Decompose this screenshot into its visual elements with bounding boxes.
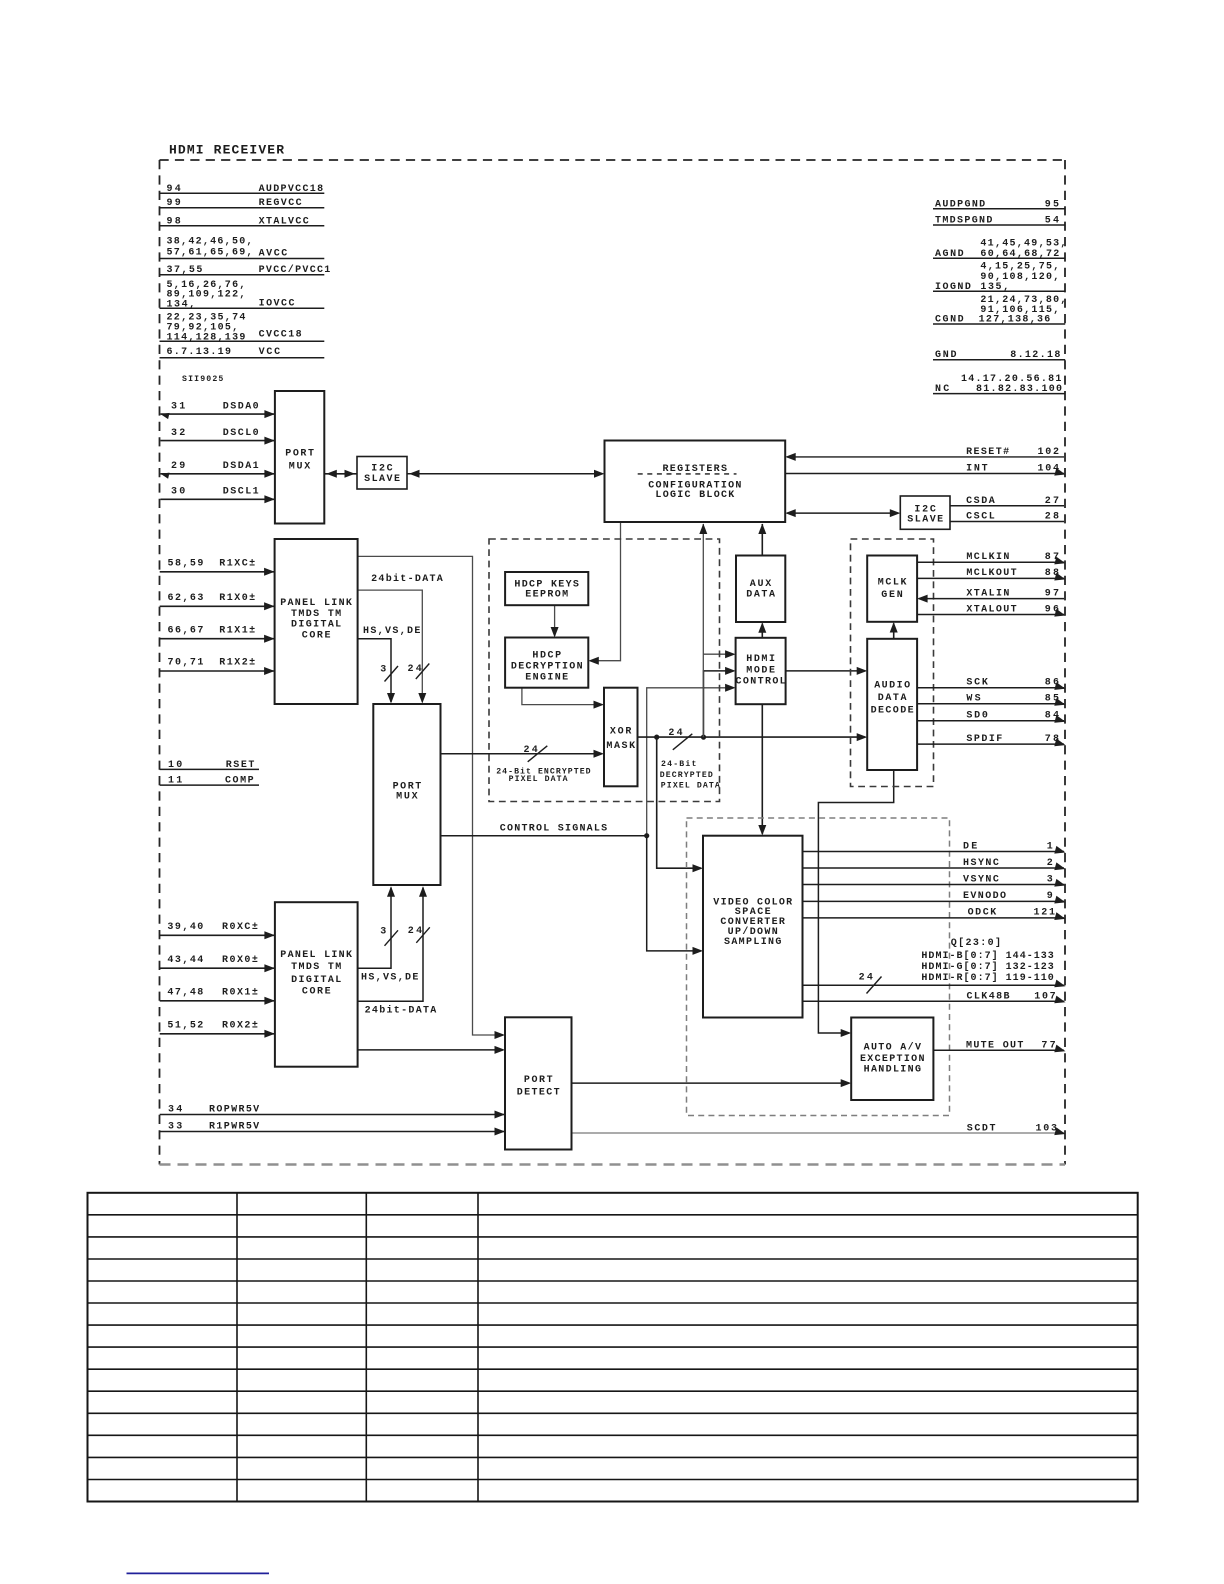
svg-text:CGND: CGND bbox=[935, 315, 964, 326]
svg-text:57,61,65,69,: 57,61,65,69, bbox=[167, 248, 253, 259]
svg-text:24bit-DATA: 24bit-DATA bbox=[371, 573, 443, 585]
svg-text:CLK48B: CLK48B bbox=[967, 991, 1010, 1002]
svg-text:EXCEPTION: EXCEPTION bbox=[860, 1054, 925, 1065]
svg-text:HDMI-G[0:7] 132-123: HDMI-G[0:7] 132-123 bbox=[921, 961, 1053, 973]
svg-text:CSDA: CSDA bbox=[966, 496, 995, 507]
svg-text:HDMI RECEIVER: HDMI RECEIVER bbox=[169, 143, 284, 158]
svg-text:37,55: 37,55 bbox=[167, 265, 203, 276]
svg-text:47,48: 47,48 bbox=[167, 987, 203, 998]
svg-text:24-Bit: 24-Bit bbox=[661, 759, 696, 769]
svg-text:SLAVE: SLAVE bbox=[364, 474, 400, 485]
svg-text:CONVERTER: CONVERTER bbox=[720, 917, 785, 928]
svg-text:GND: GND bbox=[935, 350, 957, 361]
svg-text:3: 3 bbox=[380, 665, 386, 676]
svg-text:135,: 135, bbox=[980, 282, 1009, 293]
svg-text:CORE: CORE bbox=[302, 987, 331, 998]
svg-text:3: 3 bbox=[380, 927, 386, 938]
svg-text:DIGITAL: DIGITAL bbox=[291, 975, 341, 986]
svg-text:107: 107 bbox=[1034, 991, 1056, 1002]
svg-text:AGND: AGND bbox=[935, 249, 964, 260]
svg-text:RESET#: RESET# bbox=[966, 447, 1009, 458]
svg-text:CONTROL SIGNALS: CONTROL SIGNALS bbox=[500, 824, 608, 835]
svg-text:HDMI-R[0:7] 119-110: HDMI-R[0:7] 119-110 bbox=[921, 972, 1053, 984]
svg-text:R0XC±: R0XC± bbox=[222, 922, 258, 933]
svg-text:AUDPGND: AUDPGND bbox=[935, 199, 985, 210]
svg-text:SII9025: SII9025 bbox=[182, 375, 223, 384]
svg-text:MCLK: MCLK bbox=[878, 578, 907, 589]
svg-text:AVCC: AVCC bbox=[259, 248, 288, 259]
svg-text:XTALIN: XTALIN bbox=[966, 588, 1009, 599]
svg-text:2: 2 bbox=[1047, 858, 1053, 869]
svg-text:AUTO A/V: AUTO A/V bbox=[864, 1042, 921, 1054]
svg-text:R0X0±: R0X0± bbox=[222, 955, 258, 966]
svg-text:SPDIF: SPDIF bbox=[966, 734, 1002, 745]
svg-text:HS,VS,DE: HS,VS,DE bbox=[361, 972, 418, 983]
svg-text:DECODE: DECODE bbox=[871, 706, 914, 717]
svg-text:PANEL LINK: PANEL LINK bbox=[280, 598, 352, 609]
svg-text:CSCL: CSCL bbox=[966, 512, 995, 523]
svg-text:INT: INT bbox=[966, 464, 988, 475]
svg-text:ROPWR5V: ROPWR5V bbox=[209, 1105, 259, 1116]
svg-text:XTALOUT: XTALOUT bbox=[966, 604, 1016, 615]
svg-text:134,: 134, bbox=[167, 299, 196, 310]
svg-text:HDCP: HDCP bbox=[532, 651, 561, 662]
svg-text:R1X2±: R1X2± bbox=[219, 658, 255, 669]
svg-text:RSET: RSET bbox=[226, 760, 255, 771]
svg-text:R1X0±: R1X0± bbox=[219, 593, 255, 604]
svg-text:IOVCC: IOVCC bbox=[259, 298, 295, 309]
svg-text:HDMI-B[0:7] 144-133: HDMI-B[0:7] 144-133 bbox=[921, 950, 1053, 962]
svg-text:EEPROM: EEPROM bbox=[525, 589, 568, 600]
svg-text:MCLKIN: MCLKIN bbox=[966, 552, 1009, 563]
svg-text:R0X2±: R0X2± bbox=[222, 1020, 258, 1031]
svg-text:127,138,36: 127,138,36 bbox=[979, 315, 1051, 326]
svg-text:R1PWR5V: R1PWR5V bbox=[209, 1122, 259, 1133]
svg-text:39,40: 39,40 bbox=[167, 922, 203, 933]
svg-text:R1XC±: R1XC± bbox=[219, 558, 255, 569]
svg-text:CVCC18: CVCC18 bbox=[259, 330, 302, 341]
svg-text:43,44: 43,44 bbox=[167, 955, 203, 966]
svg-text:LOGIC BLOCK: LOGIC BLOCK bbox=[655, 490, 734, 501]
svg-text:103: 103 bbox=[1036, 1123, 1058, 1134]
svg-text:3: 3 bbox=[1047, 874, 1053, 885]
svg-text:MASK: MASK bbox=[606, 741, 635, 752]
svg-text:AUDIO: AUDIO bbox=[874, 681, 910, 692]
svg-text:CONTROL: CONTROL bbox=[736, 677, 786, 688]
svg-text:HANDLING: HANDLING bbox=[864, 1065, 921, 1076]
svg-text:R0X1±: R0X1± bbox=[222, 987, 258, 998]
svg-text:HSYNC: HSYNC bbox=[963, 858, 999, 869]
svg-text:GEN: GEN bbox=[881, 590, 903, 601]
svg-text:114,128,139: 114,128,139 bbox=[167, 332, 246, 343]
svg-text:VCC: VCC bbox=[259, 347, 281, 358]
svg-text:SCK: SCK bbox=[966, 678, 988, 689]
svg-text:DECRYPTED: DECRYPTED bbox=[660, 771, 713, 780]
svg-text:Q[23:0]: Q[23:0] bbox=[951, 937, 1001, 949]
svg-text:PORT: PORT bbox=[524, 1075, 553, 1086]
svg-text:IOGND: IOGND bbox=[935, 282, 971, 293]
svg-text:PVCC/PVCC1: PVCC/PVCC1 bbox=[259, 264, 331, 276]
svg-text:MCLKOUT: MCLKOUT bbox=[966, 568, 1016, 579]
svg-text:PIXEL DATA: PIXEL DATA bbox=[509, 775, 568, 784]
svg-text:DECRYPTION: DECRYPTION bbox=[511, 662, 583, 673]
svg-text:81.82.83.100: 81.82.83.100 bbox=[976, 384, 1062, 395]
svg-text:AUDPVCC18: AUDPVCC18 bbox=[259, 184, 324, 195]
svg-text:MODE: MODE bbox=[746, 665, 775, 676]
svg-text:DATA: DATA bbox=[746, 589, 775, 600]
svg-text:DSDA1: DSDA1 bbox=[223, 461, 259, 472]
svg-text:EVNODO: EVNODO bbox=[963, 891, 1006, 902]
svg-text:R1X1±: R1X1± bbox=[219, 625, 255, 636]
svg-text:62,63: 62,63 bbox=[168, 593, 204, 604]
svg-text:DIGITAL: DIGITAL bbox=[291, 620, 341, 631]
svg-text:70,71: 70,71 bbox=[168, 658, 204, 669]
svg-text:60,64,68,72: 60,64,68,72 bbox=[980, 249, 1059, 260]
svg-text:9: 9 bbox=[1047, 891, 1053, 902]
svg-text:COMP: COMP bbox=[225, 776, 254, 787]
svg-text:24bit-DATA: 24bit-DATA bbox=[365, 1004, 437, 1016]
svg-text:8.12.18: 8.12.18 bbox=[1010, 350, 1060, 361]
svg-text:MUTE OUT: MUTE OUT bbox=[966, 1040, 1023, 1051]
svg-text:MUX: MUX bbox=[289, 461, 311, 472]
svg-text:HDMI: HDMI bbox=[746, 654, 775, 665]
svg-text:HS,VS,DE: HS,VS,DE bbox=[363, 626, 420, 637]
svg-text:104: 104 bbox=[1038, 464, 1060, 475]
svg-text:VSYNC: VSYNC bbox=[963, 874, 999, 885]
svg-text:XOR: XOR bbox=[610, 726, 632, 737]
svg-text:REGVCC: REGVCC bbox=[259, 198, 302, 209]
svg-text:1: 1 bbox=[1047, 841, 1053, 852]
svg-text:6.7.13.19: 6.7.13.19 bbox=[167, 347, 232, 358]
svg-text:TMDSPGND: TMDSPGND bbox=[935, 216, 992, 227]
svg-text:PIXEL DATA: PIXEL DATA bbox=[661, 782, 720, 791]
svg-text:SCDT: SCDT bbox=[967, 1123, 996, 1134]
svg-text:DATA: DATA bbox=[878, 693, 907, 704]
svg-text:CORE: CORE bbox=[302, 630, 331, 641]
svg-text:ENGINE: ENGINE bbox=[525, 672, 568, 683]
svg-text:SAMPLING: SAMPLING bbox=[724, 937, 781, 948]
svg-text:38,42,46,50,: 38,42,46,50, bbox=[167, 236, 253, 247]
svg-text:DSDA0: DSDA0 bbox=[223, 402, 259, 413]
svg-text:DSCL0: DSCL0 bbox=[223, 428, 259, 439]
svg-text:SD0: SD0 bbox=[966, 711, 988, 722]
svg-text:51,52: 51,52 bbox=[167, 1020, 203, 1031]
svg-text:DETECT: DETECT bbox=[517, 1088, 560, 1099]
svg-text:SLAVE: SLAVE bbox=[907, 515, 943, 526]
svg-text:41,45,49,53,: 41,45,49,53, bbox=[980, 238, 1066, 249]
svg-text:PANEL LINK: PANEL LINK bbox=[280, 950, 352, 961]
svg-text:XTALVCC: XTALVCC bbox=[259, 216, 309, 227]
svg-text:TMDS TM: TMDS TM bbox=[291, 962, 341, 973]
svg-text:66,67: 66,67 bbox=[168, 625, 204, 636]
svg-text:4,15,25,75,: 4,15,25,75, bbox=[980, 261, 1059, 272]
svg-text:PORT: PORT bbox=[285, 449, 314, 460]
svg-text:DSCL1: DSCL1 bbox=[223, 487, 259, 498]
svg-text:ODCK: ODCK bbox=[968, 908, 997, 919]
svg-text:58,59: 58,59 bbox=[168, 558, 204, 569]
svg-text:MUX: MUX bbox=[396, 792, 418, 803]
svg-text:102: 102 bbox=[1038, 447, 1060, 458]
svg-text:121: 121 bbox=[1034, 908, 1056, 919]
svg-text:TMDS TM: TMDS TM bbox=[291, 609, 341, 620]
